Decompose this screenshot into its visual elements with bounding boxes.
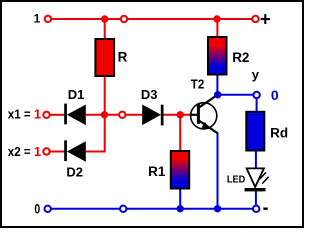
svg-text:R2: R2 <box>232 50 249 65</box>
svg-text:LED: LED <box>227 174 246 186</box>
svg-text:D3: D3 <box>141 87 158 102</box>
svg-text:y: y <box>252 67 260 82</box>
svg-text:+: + <box>260 10 271 31</box>
svg-text:0: 0 <box>34 201 40 217</box>
svg-text:D1: D1 <box>68 87 85 102</box>
svg-text:T2: T2 <box>191 77 205 92</box>
svg-text:Rd: Rd <box>270 125 288 140</box>
svg-text:0: 0 <box>271 87 279 103</box>
svg-text:1: 1 <box>34 11 41 25</box>
svg-text:x1 =: x1 = <box>8 106 31 121</box>
svg-text:D2: D2 <box>66 165 83 180</box>
svg-text:x2 =: x2 = <box>8 144 31 159</box>
svg-text:R: R <box>118 50 128 65</box>
svg-text:1: 1 <box>34 106 41 121</box>
svg-text:1: 1 <box>34 144 41 159</box>
svg-text:R1: R1 <box>148 164 166 179</box>
